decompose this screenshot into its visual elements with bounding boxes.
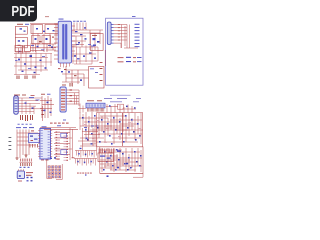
label text [41, 93, 45, 96]
wire [82, 128, 84, 150]
wire [15, 51, 30, 53]
label text [132, 15, 136, 18]
resistor row RN5 [20, 163, 22, 166]
electrolytic C17 [16, 76, 18, 80]
wire [14, 27, 16, 53]
underline [110, 94, 131, 96]
electrolytic C19 [32, 76, 34, 79]
wire [32, 25, 34, 53]
connector CN4 pin 6 [61, 104, 65, 105]
bus wire 2 [74, 158, 97, 160]
capacitor C23 [94, 57, 96, 59]
IC U3 pin left 6 [38, 143, 40, 145]
label text [45, 15, 49, 18]
connector CN3 pin 3 [15, 102, 18, 104]
diode D7 [77, 58, 80, 59]
diode D16 [91, 143, 93, 144]
ground row [77, 172, 79, 175]
label text [15, 59, 18, 62]
capacitor C44 [27, 177, 29, 178]
capacitor C47 [117, 167, 119, 169]
connector CN2 pin 1 [111, 24, 113, 26]
wire [79, 47, 81, 64]
electrolytic C31 [25, 115, 27, 121]
label text [110, 100, 122, 103]
wire [72, 40, 86, 42]
inductor L3 [89, 52, 92, 53]
capacitor C14 [45, 67, 47, 69]
electrolytic C30 [20, 115, 22, 120]
IC U3 MCU [40, 128, 51, 159]
wire [65, 66, 67, 82]
connector CN2 pin 6 [111, 39, 113, 41]
connector CN4 pin 4 [61, 98, 65, 99]
label text [14, 94, 20, 97]
resistor column [100, 61, 103, 64]
IC U3 pin right 6 [51, 143, 53, 145]
capacitor C41 [61, 133, 67, 137]
wire [72, 60, 98, 62]
capacitor cluster [50, 158, 52, 159]
wire [142, 173, 144, 177]
wire [74, 93, 76, 105]
connector CN3 pin 6 [15, 111, 18, 113]
capacitor C5 [37, 46, 39, 47]
diode D17 [80, 148, 82, 149]
resistor row under U9 [29, 144, 31, 148]
resistor R2 [39, 41, 42, 42]
PDF badge [0, 0, 37, 22]
resistor R18 [26, 171, 33, 174]
snubber parts [58, 67, 61, 70]
bus wire [75, 150, 97, 152]
wire [131, 106, 133, 113]
transistor Q1 [18, 59, 20, 61]
connector CN2 pin 2 [111, 27, 113, 29]
label text [16, 126, 21, 129]
resistor R8 [74, 75, 77, 76]
label text [76, 43, 79, 46]
wire [114, 24, 128, 26]
resistor R22 [118, 30, 120, 31]
capacitor C9 [85, 38, 87, 39]
resistor row RN4 [20, 159, 22, 162]
wire [54, 23, 58, 25]
snubber box 2 [25, 46, 31, 52]
transformer primary winding [62, 24, 64, 60]
label text [90, 68, 94, 71]
wire [73, 23, 75, 31]
wire [72, 25, 76, 27]
IC U8 [98, 153, 114, 162]
IC U3 pin right 2 [51, 132, 53, 134]
IC U10 dot [19, 175, 21, 177]
capacitor C33 [25, 102, 27, 103]
IC U3 pin left 3 [38, 135, 40, 137]
label dots [20, 167, 22, 168]
capacitor C22 [83, 55, 85, 57]
diode D1 [18, 40, 20, 42]
IC U3 pin right 4 [51, 137, 53, 139]
wire [75, 36, 77, 47]
label text [72, 156, 75, 159]
transistor Q6 [126, 163, 128, 165]
crystal Y1 [117, 150, 121, 151]
diode D6 [80, 34, 83, 35]
capacitor C25 [80, 79, 82, 81]
label text [18, 123, 20, 126]
wire [101, 148, 103, 172]
IC U3 pin left 7 [38, 145, 40, 147]
IC U10 pins [18, 169, 20, 171]
wire [54, 54, 58, 56]
wire [79, 117, 108, 119]
wire [30, 47, 56, 49]
resistor R25 [118, 40, 120, 41]
IC U3 pin left 8 [38, 148, 40, 150]
capacitor C3 [35, 38, 37, 40]
resistor network row [50, 123, 53, 124]
wire [88, 29, 103, 31]
capacitor C1 [32, 36, 41, 44]
diode D5 [75, 31, 78, 32]
wire [78, 90, 80, 106]
wire [114, 42, 122, 44]
label text [29, 96, 34, 99]
connector CN3 pin 1 [15, 97, 18, 99]
transformer T1 [58, 21, 71, 63]
resistor R19 [26, 174, 32, 177]
capacitor C8 [78, 42, 80, 43]
resistor R24 [118, 36, 120, 37]
wire [124, 47, 138, 49]
wire [14, 65, 44, 67]
main vertical bus [122, 113, 124, 146]
wire [55, 24, 57, 45]
capacitor C0 [19, 51, 21, 52]
wire [126, 25, 128, 49]
IC U8 label [100, 156, 105, 157]
capacitor C44b [27, 180, 29, 181]
connector CN4 pin 2 [61, 92, 65, 93]
IC U7 pin comb [87, 108, 89, 112]
IC U3 pin left 5 [38, 140, 40, 142]
capacitor C24 [68, 71, 70, 73]
diode D15 [86, 138, 88, 139]
connector CN4 [60, 87, 66, 112]
label text [62, 84, 66, 87]
IC U5 body [93, 38, 96, 40]
capacitor C4 [36, 28, 38, 30]
IC U3 pin right 11 [51, 156, 53, 158]
connector CN4 pin 7 [61, 106, 65, 107]
wire [43, 34, 45, 53]
IC U3 pin right 10 [51, 153, 53, 155]
wire [30, 23, 58, 25]
resistor R12 [70, 95, 73, 96]
wire [119, 105, 121, 113]
connector CN3 [14, 96, 18, 114]
wire [45, 54, 47, 71]
IC U9 [29, 134, 40, 143]
section border audio [100, 147, 143, 174]
resistor R21 [118, 27, 120, 28]
capacitor C19b [61, 71, 63, 72]
label text [57, 124, 61, 127]
wire [54, 148, 72, 150]
resistor R1 [18, 45, 21, 46]
wire [66, 89, 79, 91]
main horizontal bus [98, 127, 122, 129]
electrolytic C26 [69, 83, 71, 87]
connector CN2 pin 4 [111, 33, 113, 35]
label text [137, 60, 142, 63]
wire [35, 44, 37, 52]
resistor R20 [118, 24, 120, 25]
resistor R23 [118, 33, 120, 34]
IC U3 pin left 2 [38, 132, 40, 134]
thermistor TH1 [43, 31, 45, 32]
wire [78, 140, 96, 142]
capacitor C45 [78, 153, 80, 155]
wire [25, 130, 27, 159]
label text [135, 23, 140, 26]
ground [25, 154, 28, 156]
capacitor C42 [61, 150, 67, 155]
label text [92, 34, 97, 37]
resistor R30 [42, 106, 44, 121]
IC U3 pin right 5 [51, 140, 53, 142]
wire [54, 132, 70, 134]
connector CN2 pin 7 [111, 42, 113, 44]
capacitor C16 [34, 72, 36, 73]
IC U3 pin right 9 [51, 150, 53, 152]
wire [54, 38, 58, 40]
wire [89, 30, 91, 50]
wire [106, 104, 108, 113]
wire [30, 43, 56, 45]
wire [100, 172, 143, 174]
label text [104, 97, 112, 100]
wire [69, 128, 71, 160]
wire [37, 34, 39, 49]
section border video [97, 113, 143, 147]
bus taps [76, 151, 78, 156]
wire [104, 50, 106, 66]
IC U3 pin left 4 [38, 137, 40, 139]
wire [61, 164, 63, 180]
wire [20, 161, 33, 163]
IC U7 pin stripes [87, 104, 89, 107]
IC U3 pin right 8 [51, 148, 53, 150]
bypass capacitors audio [104, 151, 106, 153]
wire [17, 132, 38, 134]
wire [82, 131, 98, 133]
capacitor C7 [84, 27, 86, 28]
resistor cluster [84, 124, 87, 125]
capacitor C2 [42, 36, 51, 44]
connector CN3 pin 5 [15, 108, 18, 110]
small box [118, 104, 124, 109]
label text [84, 126, 87, 129]
wire [15, 54, 17, 75]
connector CN4 pin 3 [61, 95, 65, 96]
wire [82, 23, 84, 31]
capacitor C13 [35, 66, 37, 68]
diode D10 [118, 56, 124, 59]
label text [31, 44, 34, 47]
bus taps 2 [75, 159, 77, 164]
wire [30, 50, 44, 52]
connector CN2 pin 5 [111, 36, 113, 38]
IC U4 opto [30, 55, 33, 57]
varistor RV1 [20, 28, 23, 29]
wire [72, 46, 98, 48]
connector CN4 pin 8 [61, 109, 65, 110]
connector CN3 pin 2 [15, 100, 18, 102]
label text [87, 99, 94, 102]
resistor array RN2 [56, 131, 61, 134]
IC U9 marks [30, 136, 33, 137]
wire [66, 69, 89, 71]
bridge rectifier BR1 [15, 37, 27, 48]
wire [79, 104, 81, 113]
wire [41, 96, 43, 118]
label text [18, 180, 22, 183]
ground row dot [85, 174, 87, 175]
resistor R30 bands [41, 110, 44, 111]
wire [14, 53, 52, 55]
wire [72, 46, 74, 65]
filter box L2 [45, 25, 58, 34]
capacitor C46 [77, 161, 79, 163]
resistor R15 [31, 130, 34, 131]
IC U3 pin left 11 [38, 156, 40, 158]
wire [124, 26, 126, 46]
capacitor C34 [50, 112, 52, 113]
bypass capacitors [82, 117, 84, 119]
section border board2 [106, 18, 143, 85]
capacitor C15 [22, 71, 24, 72]
IC U3 label [42, 125, 47, 128]
connector CN2 [107, 22, 111, 45]
wire [121, 25, 123, 49]
IC U3 pin left 9 [38, 150, 40, 152]
wire [40, 127, 76, 129]
electrolytic C18 [24, 76, 26, 80]
wire [129, 25, 131, 49]
electrolytic C32 [30, 115, 32, 120]
feedback box [89, 67, 105, 89]
wire [21, 98, 23, 114]
diode D2 [22, 40, 24, 42]
ground [16, 157, 19, 159]
capacitor C21 [74, 55, 76, 57]
IC U3 pin labels right [48, 131, 50, 134]
label text rotated [9, 136, 12, 139]
wire [18, 97, 42, 99]
wire [30, 54, 32, 71]
capacitor C39 [109, 105, 111, 107]
resistor R11 [70, 89, 73, 90]
wire [92, 128, 94, 146]
IC U3 pin left 10 [38, 153, 40, 155]
diode D11 [118, 60, 124, 63]
wire [49, 34, 51, 49]
IC U3 pin right 1 [51, 130, 53, 132]
wire [46, 160, 48, 179]
IC U8 pins [98, 149, 100, 154]
connector CN2 pin 3 [111, 30, 113, 32]
IC U3 pin labels left [41, 129, 43, 132]
wire [16, 130, 18, 159]
label text [17, 23, 23, 26]
transformer secondary winding [65, 24, 67, 60]
wire [79, 112, 81, 130]
connector CN4 pin 5 [61, 101, 65, 102]
IC U3 pin right 7 [51, 145, 53, 147]
IC U10 [17, 171, 24, 179]
transformer bottom pins [60, 63, 62, 67]
wire [18, 48, 20, 54]
transistor Q4 [47, 102, 49, 104]
svg-text:PDF: PDF [11, 4, 34, 20]
IC U3 bottom pins [41, 159, 44, 162]
snubber box [15, 46, 23, 52]
connector CN3 pin 4 [15, 105, 18, 107]
resistor array RN3 [64, 132, 69, 135]
IC U3 pin left 1 [38, 130, 40, 132]
wire [100, 149, 122, 151]
transformer label [59, 18, 64, 21]
wire [40, 100, 52, 102]
label text [91, 45, 95, 48]
filter box L1 [31, 25, 43, 34]
key switch matrix SW1-SW16 [48, 166, 50, 168]
wire [18, 105, 36, 107]
wire [72, 29, 88, 31]
resistor R13 [70, 101, 73, 102]
capacitor C40 [107, 175, 109, 177]
resistor R5 [40, 60, 42, 61]
transistor Q3 [44, 110, 46, 112]
label text [137, 56, 142, 59]
IC U3 pin right 3 [51, 135, 53, 137]
regulator box U5 [90, 34, 103, 51]
fuse box F1 [15, 27, 27, 35]
label text [73, 20, 76, 23]
capacitor C12 [24, 63, 26, 65]
label text [31, 94, 35, 97]
IC U7 chroma [86, 103, 105, 108]
connector CN4 pin 1 [61, 89, 65, 90]
